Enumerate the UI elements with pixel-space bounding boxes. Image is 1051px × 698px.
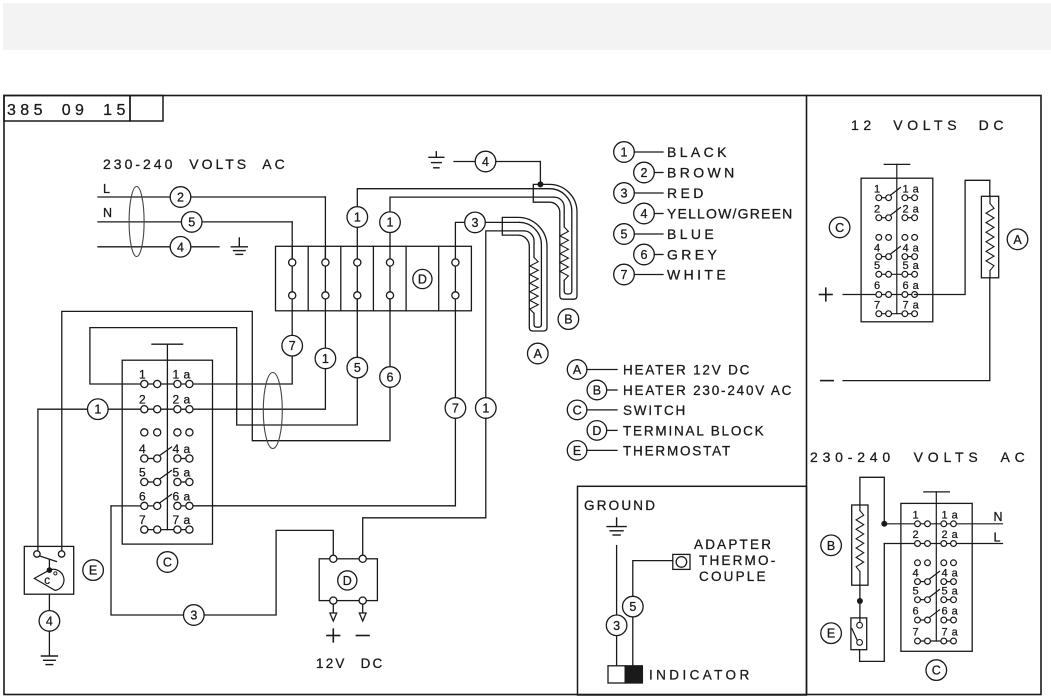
svg-text:C: C: [573, 403, 582, 417]
svg-text:4 a: 4 a: [942, 567, 959, 579]
svg-text:THERMO-: THERMO-: [699, 553, 777, 568]
svg-text:E: E: [573, 444, 581, 458]
wire marker 6: [380, 367, 401, 388]
wire row2 to thermostat E: [860, 544, 885, 662]
label D: [413, 269, 432, 288]
wire marker 3: [184, 605, 205, 626]
switch C actuator: [884, 163, 910, 165]
svg-text:5 a: 5 a: [173, 466, 191, 480]
svg-text:5: 5: [139, 466, 146, 480]
svg-text:2: 2: [139, 393, 146, 407]
wire marker 7: [445, 398, 466, 419]
svg-text:230-240 VOLTS AC: 230-240 VOLTS AC: [103, 156, 288, 172]
svg-text:12 VOLTS DC: 12 VOLTS DC: [851, 117, 1008, 133]
svg-text:ADAPTER: ADAPTER: [694, 537, 773, 552]
wire R3 to heater A: [485, 221, 519, 223]
legend 5 BLUE: [614, 224, 635, 245]
svg-text:1: 1: [94, 403, 101, 417]
svg-text:D: D: [592, 424, 601, 438]
svg-text:7 a: 7 a: [903, 299, 920, 311]
row4 contact: [915, 571, 957, 584]
svg-text:HEATER 230-240V AC: HEATER 230-240V AC: [623, 383, 793, 398]
svg-text:SWITCH: SWITCH: [623, 403, 687, 418]
thermostat arm: [40, 556, 57, 562]
svg-text:L: L: [994, 531, 1001, 545]
wire row2 (cell2 to thermostat): [38, 311, 326, 551]
svg-text:COUPLE: COUPLE: [699, 569, 768, 584]
wire marker 1: [476, 398, 497, 419]
svg-text:7: 7: [289, 339, 296, 353]
wire marker 5: [623, 596, 644, 617]
wire row6a to heater A: [915, 180, 990, 294]
wire cell3 to heater B: [357, 189, 549, 247]
heater B element zigzag: [856, 511, 864, 572]
svg-text:1: 1: [874, 183, 881, 195]
label B: [821, 535, 842, 556]
wire marker 3: [465, 212, 486, 233]
SECTION: 12V DC terminal block D: [111, 418, 486, 671]
svg-text:N: N: [103, 206, 112, 220]
label +: [820, 288, 833, 301]
heater A sheath: [502, 217, 547, 331]
legend 6 GREY: [634, 244, 655, 265]
SECTION: ground / indicator box: [578, 486, 807, 695]
svg-text:L: L: [103, 182, 110, 196]
svg-text:C: C: [163, 556, 172, 570]
svg-text:B: B: [593, 384, 601, 398]
svg-text:1: 1: [139, 368, 146, 382]
terminal block D body: [276, 246, 472, 310]
wire cell4 to heater B: [390, 197, 554, 246]
wire marker 7: [282, 335, 303, 356]
ground symbol: [607, 518, 626, 535]
thermostat sensor: [34, 569, 64, 590]
heater B sheath: [533, 184, 577, 299]
wire marker 3: [606, 615, 627, 636]
indicator: [608, 666, 625, 683]
svg-text:3: 3: [621, 187, 628, 201]
svg-text:6 a: 6 a: [903, 280, 920, 292]
wire row6-left to block: [111, 506, 333, 615]
svg-text:YELLOW/GREEN: YELLOW/GREEN: [667, 206, 793, 222]
terminal contacts: [289, 259, 459, 299]
legend E THERMOSTAT: [567, 441, 587, 461]
svg-text:GROUND: GROUND: [584, 498, 657, 513]
switch C actuator: [152, 343, 183, 345]
legend 7 WHITE: [614, 264, 635, 285]
svg-text:1: 1: [354, 211, 361, 225]
svg-text:1: 1: [913, 510, 920, 522]
SECTION: bottom right panel 230-240 VOLTS AC: [810, 449, 1030, 680]
svg-text:6 a: 6 a: [173, 489, 191, 503]
svg-text:C: C: [932, 664, 941, 678]
row1 contact + N wire: [884, 521, 1002, 527]
svg-text:6: 6: [913, 606, 920, 618]
svg-text:6: 6: [139, 489, 146, 503]
label D: [338, 571, 357, 590]
junction heaterB-E: [857, 598, 863, 604]
svg-text:5 a: 5 a: [903, 260, 920, 272]
wire thermocouple to indicator: [633, 561, 673, 666]
svg-text:6: 6: [874, 280, 881, 292]
row7 contact: [915, 638, 957, 644]
row2 contact: [876, 208, 918, 221]
svg-text:4: 4: [482, 155, 489, 169]
cable ellipse: [129, 187, 144, 257]
block D body: [319, 559, 377, 601]
svg-text:2 a: 2 a: [173, 393, 191, 407]
svg-text:D: D: [418, 273, 427, 287]
svg-text:5 a: 5 a: [942, 585, 959, 597]
svg-text:5: 5: [629, 600, 636, 614]
heater B conductor lower: [554, 197, 564, 227]
svg-text:4: 4: [177, 240, 184, 254]
svg-text:7 a: 7 a: [173, 513, 191, 527]
legend 2 BROWN: [634, 162, 655, 183]
wire heaterA lower to block: [363, 418, 486, 555]
heater B conductor upper: [550, 189, 572, 294]
switch C body: [122, 360, 212, 544]
wire marker 5: [181, 212, 202, 233]
thermostat terminals: [34, 551, 40, 557]
svg-text:4 a: 4 a: [903, 242, 920, 254]
wire cell6 to R3 marker: [455, 222, 464, 246]
wire marker 4: [170, 237, 191, 258]
svg-text:5: 5: [621, 228, 628, 242]
SECTION: main switch C: [38, 299, 400, 580]
svg-text:WHITE: WHITE: [667, 267, 729, 283]
switch C body: [861, 178, 933, 322]
SECTION: wires above terminal block / heater feeds: [193, 151, 554, 506]
row5 contact: [915, 590, 957, 603]
svg-text:5: 5: [874, 260, 881, 272]
svg-text:N: N: [994, 510, 1003, 524]
ground (thermostat): [41, 656, 57, 665]
SECTION: right panel 12 VOLTS DC: [820, 117, 1028, 381]
thermostat E body: [851, 618, 867, 650]
svg-text:230-240 VOLTS AC: 230-240 VOLTS AC: [810, 449, 1030, 465]
svg-text:6 a: 6 a: [942, 606, 959, 618]
header bar: [3, 3, 1051, 50]
svg-text:1 a: 1 a: [173, 368, 191, 382]
svg-text:385 09 15: 385 09 15: [7, 102, 130, 119]
wire marker 1 (row2 left): [88, 399, 109, 420]
svg-text:7: 7: [139, 513, 146, 527]
svg-text:2: 2: [641, 166, 648, 180]
svg-text:4: 4: [139, 442, 146, 456]
switch C contacts: [141, 380, 193, 436]
wire cell6 down to switch row6a: [193, 311, 455, 506]
SECTION: terminal block D: [276, 246, 472, 310]
svg-text:6: 6: [641, 248, 648, 262]
wire thermostat to earth: [48, 594, 50, 610]
svg-text:7: 7: [874, 299, 881, 311]
legend A HEATER 12V DC: [567, 360, 587, 380]
row4 contact: [141, 447, 193, 462]
label A: [528, 343, 549, 364]
wire cell4 to thermostat right: [62, 299, 390, 551]
wire marker 4: [39, 611, 60, 632]
svg-text:3: 3: [190, 609, 197, 623]
row4 contact: [876, 246, 918, 259]
label E: [83, 560, 104, 581]
svg-text:1: 1: [322, 352, 329, 366]
svg-text:HEATER 12V DC: HEATER 12V DC: [623, 363, 751, 378]
svg-text:BLACK: BLACK: [667, 144, 730, 160]
row6 contact + wires: [111, 494, 193, 509]
label E: [821, 623, 842, 644]
svg-text:7: 7: [913, 627, 920, 639]
legend B HEATER 230-240V AC: [587, 380, 607, 400]
junction row1: [881, 521, 887, 527]
svg-text:BROWN: BROWN: [667, 165, 738, 181]
svg-text:c: c: [44, 575, 50, 587]
wire heater B top to row1: [860, 477, 884, 524]
svg-text:12V DC: 12V DC: [316, 656, 384, 671]
SECTION: heater A (12V) element: [502, 217, 548, 363]
svg-text:4 a: 4 a: [173, 442, 191, 456]
row7 contact: [141, 526, 193, 533]
svg-text:2 a: 2 a: [903, 203, 920, 215]
SECTION: main AC input: [98, 156, 325, 263]
switch C actuator: [924, 491, 950, 493]
svg-text:1: 1: [621, 146, 628, 160]
label C: [926, 660, 947, 681]
row1 contact: [876, 188, 918, 201]
svg-text:1: 1: [482, 402, 489, 416]
wire minus to heater A: [843, 278, 990, 381]
svg-text:BLUE: BLUE: [667, 226, 717, 242]
svg-text:TERMINAL BLOCK: TERMINAL BLOCK: [623, 423, 765, 438]
svg-text:B: B: [827, 539, 835, 553]
svg-text:A: A: [534, 347, 543, 361]
wire heater B bottom to E: [859, 585, 861, 622]
thermostat E body: [24, 546, 73, 594]
svg-text:E: E: [827, 627, 835, 641]
svg-text:1 a: 1 a: [903, 183, 920, 195]
row5 contact: [876, 271, 918, 277]
svg-text:5: 5: [913, 585, 920, 597]
row5 contact: [141, 471, 193, 486]
svg-text:4: 4: [641, 207, 648, 221]
wire marker 1: [380, 212, 401, 233]
wire marker 4: [475, 151, 496, 172]
heater B element zigzag: [560, 227, 568, 280]
row2 contact + L wire: [884, 541, 1002, 547]
legend 1 BLACK: [614, 142, 635, 163]
wire row1 (cell1 to loop): [90, 299, 357, 425]
legend 3 RED: [614, 183, 635, 204]
SECTION: component legend: [567, 360, 793, 461]
wire L: [98, 196, 325, 198]
label C: [157, 552, 178, 573]
svg-text:2: 2: [177, 191, 184, 205]
SECTION: heater B (230-240V) element: [533, 184, 578, 329]
heater A conductor upper: [519, 222, 541, 327]
adapter thermocouple: [673, 554, 690, 569]
row3 contact: [876, 235, 918, 241]
switch pin labels: [913, 510, 959, 639]
wire earth: [98, 246, 219, 248]
svg-text:GREY: GREY: [667, 247, 720, 263]
svg-text:1 a: 1 a: [942, 510, 959, 522]
heater B body: [852, 505, 868, 585]
svg-text:3: 3: [613, 619, 620, 633]
heater A element zigzag: [986, 204, 994, 271]
label C: [829, 217, 850, 238]
title block 385 09 15: [4, 96, 130, 122]
label +: [327, 629, 369, 642]
svg-text:A: A: [1013, 233, 1022, 247]
label B: [558, 309, 579, 330]
svg-text:RED: RED: [667, 185, 707, 201]
wire marker 1: [315, 348, 336, 369]
svg-text:A: A: [573, 363, 582, 377]
heater A element zigzag: [530, 257, 538, 313]
legend C SWITCH: [567, 400, 587, 420]
row6 contact + supply wire: [843, 292, 917, 298]
label A: [1007, 229, 1028, 250]
svg-text:4: 4: [874, 242, 881, 254]
svg-text:4: 4: [46, 614, 53, 628]
svg-text:4: 4: [913, 567, 920, 579]
svg-text:D: D: [343, 574, 352, 588]
row7 contact: [876, 311, 918, 317]
SECTION: wire colour legend: [614, 142, 794, 285]
svg-text:7: 7: [452, 402, 459, 416]
junction on sheath B: [537, 181, 543, 187]
svg-text:7: 7: [621, 268, 628, 282]
wire to heater A inner: [486, 231, 524, 398]
wire ground to indicator: [616, 546, 618, 615]
svg-text:INDICATOR: INDICATOR: [649, 668, 753, 683]
wire marker 1: [347, 207, 368, 228]
svg-text:C: C: [835, 221, 844, 235]
switch C pin labels: [139, 368, 191, 528]
svg-text:B: B: [564, 313, 572, 327]
terminal block internal links: [291, 246, 293, 310]
svg-text:7 a: 7 a: [942, 627, 959, 639]
switch pin labels: [874, 183, 920, 311]
wire marker 2: [170, 187, 191, 208]
svg-text:2: 2: [913, 529, 920, 541]
ground (mains earth): [231, 238, 247, 254]
pin arrows: [332, 604, 334, 613]
svg-text:3: 3: [472, 216, 479, 230]
panel divider: [806, 96, 808, 695]
svg-text:THERMOSTAT: THERMOSTAT: [623, 443, 732, 458]
cable ellipse: [263, 373, 282, 449]
wire marker 5: [347, 357, 368, 378]
wire N: [98, 221, 292, 223]
row6 contact: [915, 610, 957, 623]
heater A body: [981, 196, 998, 277]
svg-text:1: 1: [387, 216, 394, 230]
legend 4 YELLOW/GREEN: [634, 203, 655, 224]
label minus: [821, 380, 833, 382]
wire earth to sheath: [454, 161, 475, 163]
svg-text:5: 5: [188, 215, 195, 229]
heater A conductor lower: [524, 231, 534, 258]
svg-text:2 a: 2 a: [942, 529, 959, 541]
switch C body: [901, 503, 972, 651]
SECTION: thermostat E: [24, 546, 73, 664]
ground box frame: [578, 486, 807, 695]
ground (heater earth): [429, 152, 444, 168]
svg-text:5: 5: [354, 361, 361, 375]
svg-text:E: E: [89, 564, 97, 578]
svg-text:2: 2: [874, 203, 881, 215]
legend D TERMINAL BLOCK: [587, 421, 607, 441]
svg-text:6: 6: [387, 371, 394, 385]
row3 contact: [915, 560, 957, 566]
